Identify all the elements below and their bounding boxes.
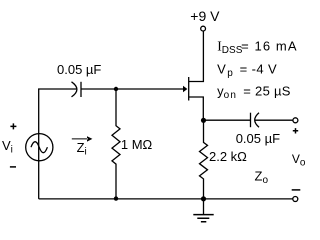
wire output node to C2: [204, 119, 251, 121]
node R1 bottom junction dot: [114, 196, 118, 200]
svg-text:0.05 µF: 0.05 µF: [57, 62, 101, 77]
capacitor C2 straight plate: [250, 113, 252, 128]
+9V terminal circle: [201, 26, 206, 31]
svg-text:yon = 25 µS: yon = 25 µS: [217, 84, 291, 101]
svg-text:2.2 kΩ: 2.2 kΩ: [209, 149, 247, 164]
svg-text:Vo: Vo: [292, 152, 306, 169]
polarity minus right: [292, 189, 301, 191]
polarity plus left: [10, 123, 16, 129]
wire C2 to output terminal: [255, 119, 293, 121]
svg-text:Vi: Vi: [2, 138, 13, 156]
transistor Q1 JFET channel bar: [188, 77, 190, 101]
transistor Q1 source lead: [189, 97, 204, 118]
svg-text:0.05 µF: 0.05 µF: [236, 131, 280, 146]
transistor Q1 gate arrowhead: [183, 86, 187, 92]
node ground junction dot: [201, 196, 206, 201]
bottom rail wire: [39, 198, 293, 200]
output terminal top circle: [293, 118, 298, 123]
svg-text:IDSS= 16 mA: IDSS= 16 mA: [217, 38, 297, 56]
polarity plus right: [293, 128, 298, 133]
svg-text:Zo: Zo: [255, 168, 269, 186]
svg-text:Zi: Zi: [77, 140, 87, 158]
resistor R2 2.2 kohm: [200, 120, 208, 199]
capacitor C1 straight plate: [80, 82, 82, 97]
wire from C1 to gate: [81, 88, 183, 90]
svg-text:Vp = -4 V: Vp = -4 V: [217, 61, 277, 79]
capacitor C1 curved plate: [72, 82, 77, 97]
svg-text:1 MΩ: 1 MΩ: [121, 137, 153, 152]
resistor R1 1 Mohm: [112, 89, 120, 199]
svg-text:+9 V: +9 V: [190, 8, 220, 24]
polarity minus left: [10, 166, 16, 168]
source Vi circle: [26, 134, 53, 161]
ground: [203, 199, 205, 215]
capacitor C2 curved plate: [255, 113, 259, 127]
wire left rail top corner and top wire to input cap: [39, 89, 77, 199]
impedance arrow Zi: [72, 136, 93, 141]
output terminal bottom circle: [293, 197, 298, 202]
node output junction dot: [201, 118, 206, 123]
node gate junction dot: [114, 87, 118, 91]
source Vi sine: [31, 142, 47, 153]
transistor Q1 drain lead: [189, 31, 204, 82]
